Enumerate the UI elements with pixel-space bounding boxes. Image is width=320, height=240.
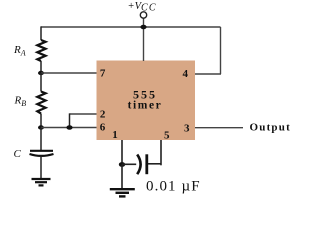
ground (below pin 1) xyxy=(110,189,135,196)
node junction pin1/cap xyxy=(119,162,125,167)
svg-text:2: 2 xyxy=(100,109,106,121)
svg-text:0.01 µF: 0.01 µF xyxy=(146,179,201,195)
terminal +Vcc open circle xyxy=(140,12,146,18)
wire left rail top segment xyxy=(40,26,42,40)
resistor RA xyxy=(37,40,45,61)
capacitor C top plate xyxy=(30,150,53,152)
wire pin 6 xyxy=(41,127,97,129)
ground (left, below C) xyxy=(32,179,51,185)
wire pin 5 down from IC xyxy=(160,140,162,165)
wire pin 3 output xyxy=(195,127,243,129)
wire pin 2 horizontal xyxy=(70,113,97,115)
wire node6 down to capacitor C xyxy=(40,128,42,151)
wire node to capacitor xyxy=(122,163,136,165)
wire between RB and node6 xyxy=(40,114,42,128)
capacitor C bottom curved plate xyxy=(30,154,54,156)
wire node to ground xyxy=(121,165,123,189)
svg-text:5: 5 xyxy=(164,130,170,142)
IC U1 555 timer body xyxy=(97,61,196,141)
wire capacitor C to ground xyxy=(40,156,42,179)
svg-text:Output: Output xyxy=(250,121,291,133)
svg-text:6: 6 xyxy=(100,122,106,134)
wire pin 2 vertical to node on pin6 wire xyxy=(69,113,71,127)
resistor RB xyxy=(37,92,45,114)
wire capacitor to pin 5 vertical xyxy=(148,163,161,165)
svg-text:+VCC: +VCC xyxy=(128,1,157,14)
svg-text:timer: timer xyxy=(128,100,163,112)
wire pin 4 xyxy=(195,73,221,75)
node junction pin2/pin6 xyxy=(66,125,72,130)
svg-text:3: 3 xyxy=(184,123,190,135)
wire pin 1 down from IC xyxy=(121,140,123,165)
wire pin 7 xyxy=(41,72,97,74)
node junction RA/RB/pin7 xyxy=(38,71,44,75)
capacitor 0.01uF curved plate xyxy=(137,155,140,175)
node junction Vcc / top rail xyxy=(140,25,146,30)
capacitor 0.01uF straight plate xyxy=(145,154,148,174)
wire Vcc drop to IC top xyxy=(143,18,145,61)
wire between node7 and RB xyxy=(40,73,42,92)
svg-text:7: 7 xyxy=(100,68,106,80)
wire right rail down to pin 4 level xyxy=(220,27,222,74)
svg-text:1: 1 xyxy=(112,129,118,141)
svg-text:C: C xyxy=(14,148,22,160)
wire between RA and node7 xyxy=(40,61,42,73)
svg-text:4: 4 xyxy=(182,68,188,80)
wire top rail from left rail to right rail xyxy=(41,26,221,28)
node junction RB/pin6/C xyxy=(38,125,44,129)
